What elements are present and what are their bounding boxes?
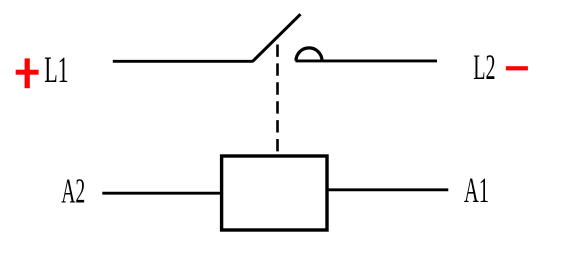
wire L1 to switch <box>113 60 254 63</box>
wire switch to L2 <box>296 59 438 62</box>
svg-text:A1: A1 <box>464 170 489 210</box>
switch blade (NO contact) <box>253 14 301 61</box>
svg-text:L1: L1 <box>44 50 68 91</box>
wire coil to A1 <box>328 188 448 191</box>
plus symbol (+) supply polarity <box>16 58 39 88</box>
dashed mechanical link <box>276 45 279 155</box>
coil box K1 <box>222 156 327 230</box>
wire A2 to coil <box>102 192 221 195</box>
contact arc (delay/operating head) <box>296 48 322 61</box>
svg-text:L2: L2 <box>473 47 495 87</box>
minus symbol (-) supply polarity <box>506 66 528 70</box>
svg-text:A2: A2 <box>61 172 85 210</box>
